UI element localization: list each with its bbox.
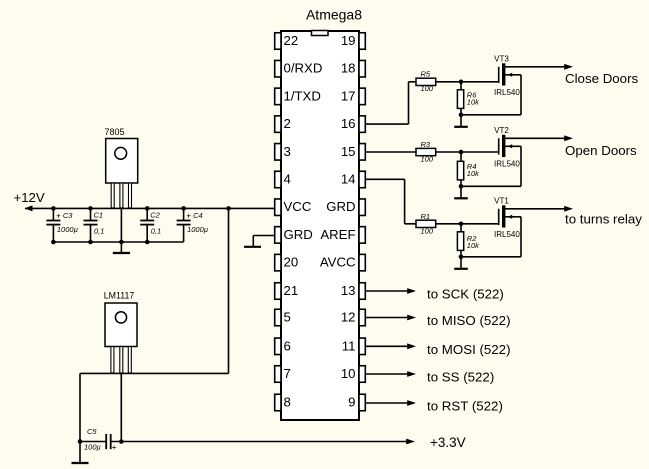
svg-text:IRL540: IRL540: [494, 88, 520, 97]
svg-text:GRD: GRD: [284, 227, 313, 242]
svg-text:8: 8: [284, 395, 291, 410]
svg-text:AREF: AREF: [320, 227, 355, 242]
svg-text:4: 4: [284, 172, 291, 187]
svg-text:C3: C3: [63, 211, 73, 220]
svg-text:6: 6: [284, 338, 291, 353]
svg-text:GRD: GRD: [326, 199, 355, 214]
svg-text:13: 13: [341, 283, 356, 298]
svg-text:10: 10: [341, 366, 356, 381]
svg-text:5: 5: [284, 310, 291, 325]
svg-text:R1: R1: [421, 212, 431, 221]
svg-text:LM1117: LM1117: [104, 291, 135, 301]
svg-text:19: 19: [341, 33, 356, 48]
svg-text:+3.3V: +3.3V: [430, 435, 466, 450]
svg-text:100µ: 100µ: [84, 442, 101, 451]
svg-text:10k: 10k: [467, 169, 480, 178]
svg-text:C1: C1: [94, 211, 104, 220]
svg-text:16: 16: [341, 116, 356, 131]
svg-text:IRL540: IRL540: [494, 230, 520, 239]
svg-text:21: 21: [284, 283, 299, 298]
svg-text:IRL540: IRL540: [494, 159, 520, 168]
svg-text:C5: C5: [87, 427, 97, 436]
svg-text:7805: 7805: [104, 127, 124, 137]
svg-text:17: 17: [341, 88, 356, 103]
svg-text:12: 12: [341, 310, 356, 325]
svg-text:15: 15: [341, 144, 356, 159]
svg-text:10k: 10k: [467, 98, 480, 107]
svg-text:11: 11: [342, 338, 356, 353]
svg-text:to RST (522): to RST (522): [427, 399, 503, 414]
svg-text:0,1: 0,1: [94, 226, 104, 235]
svg-text:1000µ: 1000µ: [187, 225, 208, 234]
svg-text:Atmega8: Atmega8: [306, 7, 362, 23]
svg-text:VT3: VT3: [494, 54, 509, 63]
svg-text:C4: C4: [193, 211, 203, 220]
svg-text:1/TXD: 1/TXD: [284, 88, 321, 103]
svg-text:7: 7: [284, 366, 291, 381]
svg-text:+: +: [186, 211, 191, 221]
svg-text:to MISO (522): to MISO (522): [427, 313, 511, 328]
svg-text:to SCK (522): to SCK (522): [427, 287, 504, 302]
svg-text:+12V: +12V: [14, 190, 45, 205]
svg-text:to turns relay: to turns relay: [565, 212, 642, 227]
svg-text:9: 9: [348, 395, 355, 410]
svg-text:R5: R5: [421, 70, 431, 79]
svg-text:+: +: [56, 211, 61, 221]
svg-text:VT2: VT2: [494, 126, 509, 135]
svg-text:14: 14: [341, 172, 356, 187]
svg-text:Open Doors: Open Doors: [565, 143, 637, 158]
svg-text:to SS (522): to SS (522): [427, 370, 494, 385]
svg-text:0/RXD: 0/RXD: [284, 61, 323, 76]
svg-text:3: 3: [284, 144, 291, 159]
svg-text:+: +: [112, 442, 117, 452]
svg-text:18: 18: [341, 61, 356, 76]
svg-text:R3: R3: [421, 140, 431, 149]
svg-text:0,1: 0,1: [151, 226, 161, 235]
svg-text:10k: 10k: [467, 241, 480, 250]
svg-text:100: 100: [421, 226, 434, 235]
svg-text:VCC: VCC: [284, 199, 312, 214]
svg-text:C2: C2: [150, 211, 160, 220]
svg-text:100: 100: [421, 155, 434, 164]
svg-text:100: 100: [421, 84, 434, 93]
svg-text:Close Doors: Close Doors: [565, 71, 639, 86]
svg-text:20: 20: [284, 255, 299, 270]
svg-text:VT1: VT1: [494, 196, 509, 205]
svg-text:to MOSI (522): to MOSI (522): [427, 342, 511, 357]
svg-text:1000µ: 1000µ: [57, 225, 78, 234]
svg-text:22: 22: [284, 33, 299, 48]
svg-text:AVCC: AVCC: [320, 255, 356, 270]
svg-text:2: 2: [284, 116, 291, 131]
